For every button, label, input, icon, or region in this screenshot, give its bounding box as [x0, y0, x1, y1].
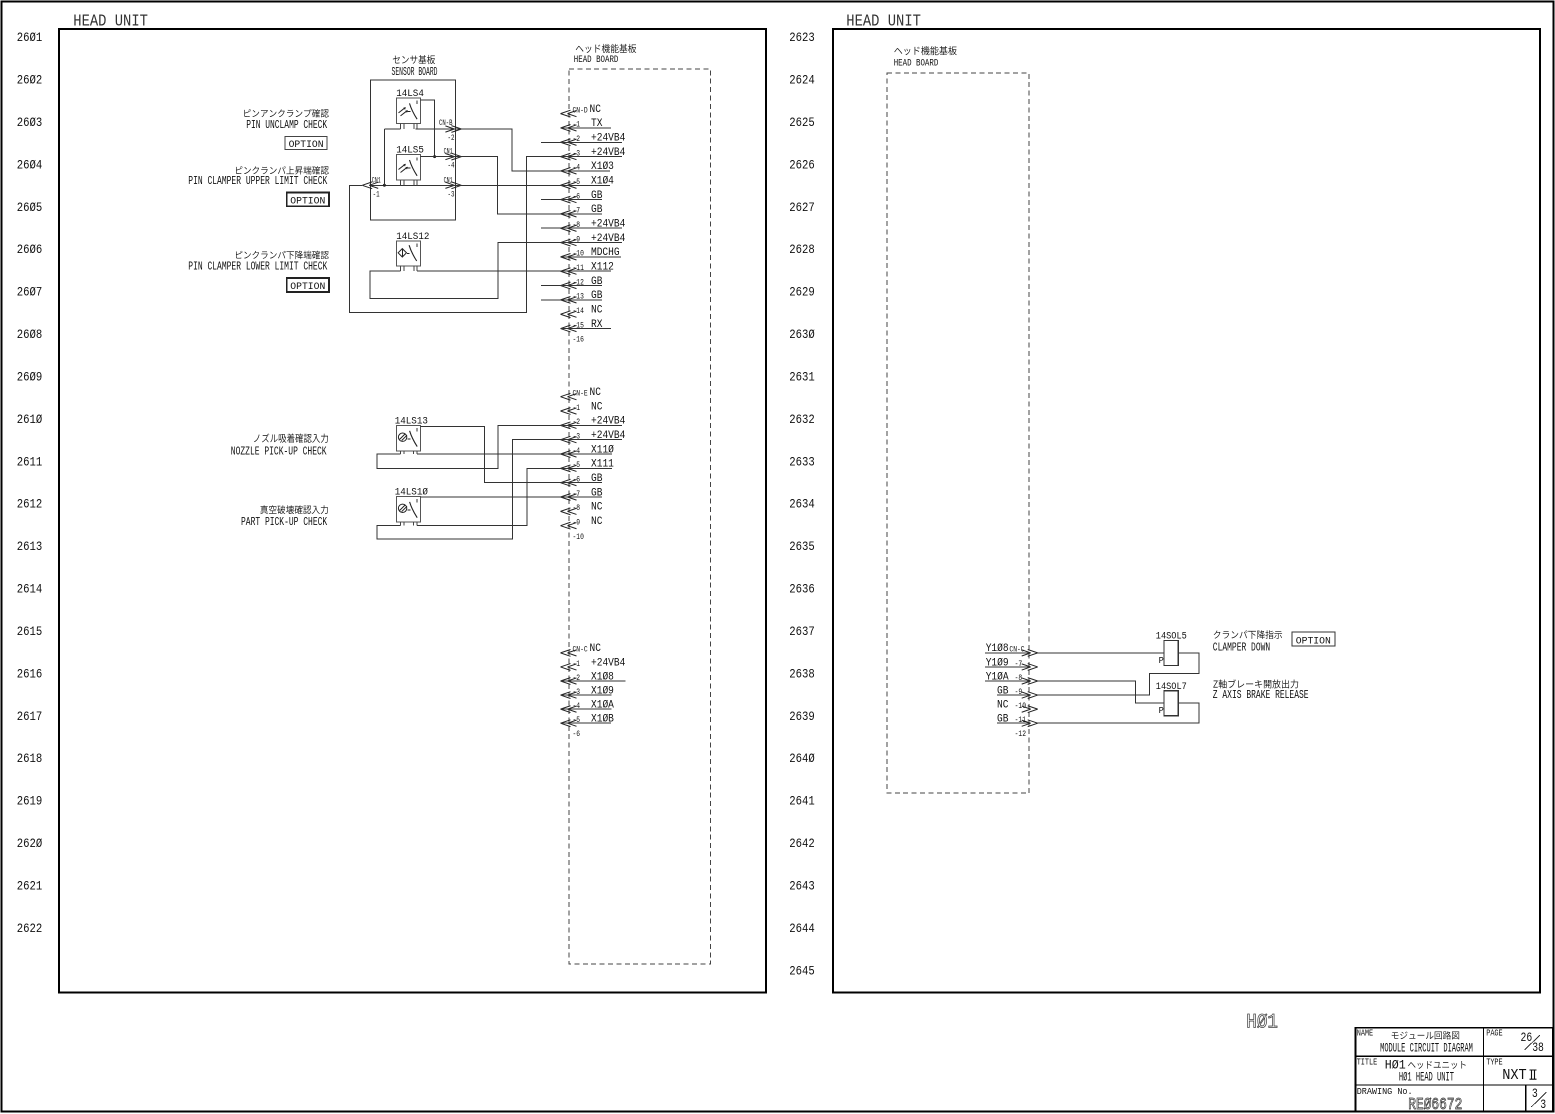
svg-text:OPTION: OPTION	[290, 195, 325, 207]
label ピンアンクランプ確認	[244, 109, 329, 118]
head board label (Japanese) ヘッド機能基板 - right	[894, 46, 956, 55]
sensor board label (Japanese) センサ基板	[393, 55, 435, 64]
svg-text:RX: RX	[591, 319, 603, 331]
svg-text:2627: 2627	[789, 200, 815, 215]
svg-text:P: P	[1159, 705, 1164, 716]
svg-text:2617: 2617	[17, 709, 43, 724]
connector CN-C (right sheet) pin -7 (Y109)	[985, 657, 1038, 670]
label ノズル吸着確認入力	[254, 433, 328, 442]
svg-text:2613: 2613	[17, 539, 43, 554]
wire net GB: LS10 top to CN-E-7	[421, 496, 561, 498]
title block outline	[1356, 1028, 1554, 1112]
svg-text:264Ø: 264Ø	[789, 751, 815, 766]
svg-text:NC: NC	[590, 387, 602, 399]
svg-text:3: 3	[1532, 1087, 1538, 1101]
svg-text:-1: -1	[573, 659, 581, 669]
svg-text:2612: 2612	[17, 497, 43, 512]
svg-text:CN-E: CN-E	[573, 389, 588, 399]
connector CN-E pin -6 (GB)	[561, 473, 603, 486]
label クランパ下降指示	[1214, 630, 1282, 639]
connector CN-E pin -4 (X110)	[561, 444, 615, 457]
connector CN-D pin -12 (GB)	[561, 276, 603, 289]
svg-text:Z AXIS BRAKE RELEASE: Z AXIS BRAKE RELEASE	[1213, 689, 1309, 702]
svg-text:-1: -1	[573, 403, 581, 413]
wire net CN1-4 to CN-D-7 (GB)	[421, 157, 561, 214]
svg-text:26Ø3: 26Ø3	[17, 115, 43, 130]
svg-text:HEAD UNIT: HEAD UNIT	[846, 11, 921, 30]
svg-text:2631: 2631	[789, 369, 815, 384]
svg-text:PIN CLAMPER UPPER LIMIT CHECK: PIN CLAMPER UPPER LIMIT CHECK	[188, 175, 327, 188]
junction dot LS4 output on CN1-4 net	[433, 155, 436, 158]
svg-text:26Ø8: 26Ø8	[17, 327, 43, 342]
svg-text:2623: 2623	[789, 30, 815, 45]
svg-text:2611: 2611	[17, 454, 43, 469]
OPTION box right	[1292, 632, 1335, 646]
svg-text:+24VB4: +24VB4	[591, 657, 625, 669]
svg-text:2638: 2638	[789, 666, 815, 681]
svg-text:2633: 2633	[789, 454, 815, 469]
label Z軸ブレーキ開放出力	[1213, 679, 1298, 688]
wire LS5 right pin to CN1-3 net	[413, 180, 415, 185]
svg-text:2621: 2621	[17, 879, 43, 894]
sensor 14LS4 (pin unclamp photo sensor)	[396, 98, 420, 123]
connector CN-E pin -7 (GB)	[561, 487, 603, 500]
svg-text:NAME: NAME	[1357, 1027, 1374, 1038]
sensor 14LS13 (nozzle pick-up vacuum sensor)	[396, 426, 420, 451]
svg-text:2645: 2645	[789, 963, 815, 978]
svg-text:2642: 2642	[789, 836, 815, 851]
connector CN-D pin -7 (GB)	[561, 204, 603, 217]
label ピンクランパ上昇端確認	[236, 166, 329, 175]
svg-text:2644: 2644	[789, 921, 815, 936]
sensor 14LS5 (pin clamper upper limit photo sensor)	[396, 155, 420, 180]
OPTION box 2	[287, 193, 329, 207]
connector CN-D pin -3 (+24VB4)	[561, 147, 626, 160]
connector CN-E pin -8 (NC)	[561, 502, 603, 515]
connector CN-C pin -2 (X108)	[561, 671, 626, 684]
connector CN-D pin -11 (X112)	[561, 262, 615, 275]
connector CN-D pin -13 (GB)	[561, 290, 603, 303]
svg-text:-1: -1	[373, 189, 380, 199]
svg-text:HEAD BOARD: HEAD BOARD	[574, 54, 619, 66]
svg-text:-4: -4	[448, 161, 455, 171]
svg-text:2639: 2639	[789, 709, 815, 724]
connector CN-C (right sheet) pin -9 (GB)	[997, 685, 1038, 698]
svg-text:14SOL7: 14SOL7	[1156, 682, 1187, 693]
svg-text:261Ø: 261Ø	[17, 412, 43, 427]
wire net GB: LS13 top to CN-E-6	[421, 426, 561, 482]
connector CN-D pin -2 (+24VB4)	[561, 133, 626, 146]
svg-text:CN-B: CN-B	[439, 119, 453, 128]
svg-text:MDCHG: MDCHG	[591, 247, 620, 259]
svg-text:NC: NC	[997, 699, 1009, 711]
svg-text:MODULE CIRCUIT DIAGRAM: MODULE CIRCUIT DIAGRAM	[1380, 1041, 1473, 1055]
connector CN-D row NC (top)	[561, 104, 602, 117]
svg-text:-14: -14	[573, 306, 584, 316]
svg-text:OPTION: OPTION	[1296, 635, 1331, 647]
title block title H01ヘッドユニット	[1385, 1057, 1466, 1072]
wire stub GB CN-D-6	[541, 199, 561, 201]
svg-text:+24VB4: +24VB4	[591, 416, 625, 428]
svg-text:TITLE: TITLE	[1357, 1056, 1378, 1067]
wire stub +24VB4 CN-D-8	[541, 227, 561, 229]
title block type NXT II	[1502, 1068, 1536, 1084]
svg-text:26Ø2: 26Ø2	[17, 73, 43, 88]
title block page number 26/38	[1521, 1031, 1544, 1055]
title block dividers	[1356, 1028, 1554, 1112]
sensor 14LS12 (pin clamper lower limit pressure sensor)	[396, 241, 420, 266]
connector CN1 pin 1 (sensor board left edge)	[362, 176, 381, 199]
svg-text:2624: 2624	[789, 73, 815, 88]
svg-text:CN-C: CN-C	[573, 645, 588, 655]
svg-text:TX: TX	[591, 118, 603, 130]
svg-text:PIN CLAMPER LOWER LIMIT CHECK: PIN CLAMPER LOWER LIMIT CHECK	[188, 261, 327, 274]
svg-text:-8: -8	[573, 503, 581, 513]
wire net +24VB4 supply: CN-D-3 to CN1-1	[349, 157, 560, 313]
svg-text:NC: NC	[590, 104, 602, 116]
svg-text:26Ø6: 26Ø6	[17, 242, 43, 257]
wire 14SOL7 - return to CN-C-11 (GB)	[1038, 703, 1199, 723]
svg-text:-6: -6	[573, 729, 581, 739]
wire 14SOL5 - return to CN-C-9 (GB)	[1038, 653, 1199, 695]
svg-text:P: P	[1159, 655, 1164, 666]
svg-text:26Ø5: 26Ø5	[17, 200, 43, 215]
connector CN-C row NC (top, left sheet)	[561, 643, 602, 656]
svg-text:2616: 2616	[17, 666, 43, 681]
sensor 14LS10 (part pick-up vacuum sensor)	[396, 497, 420, 522]
svg-text:PIN UNCLAMP CHECK: PIN UNCLAMP CHECK	[246, 119, 327, 132]
connector CN-E pin -1 (NC)	[561, 401, 603, 414]
svg-text:OPTION: OPTION	[289, 139, 324, 151]
label ピンクランパ下降端確認	[236, 251, 329, 260]
connector CN-E pin -3 (+24VB4)	[561, 430, 626, 443]
svg-text:PAGE: PAGE	[1486, 1027, 1503, 1038]
svg-text:X11Ø: X11Ø	[591, 444, 614, 456]
svg-text:2628: 2628	[789, 242, 815, 257]
svg-text:NOZZLE PICK-UP CHECK: NOZZLE PICK-UP CHECK	[231, 445, 327, 458]
svg-text:TYPE: TYPE	[1486, 1056, 1503, 1067]
wire LS5 left pin to CN1-1 net	[400, 180, 402, 185]
svg-text:2632: 2632	[789, 412, 815, 427]
svg-text:26Ø9: 26Ø9	[17, 369, 43, 384]
svg-text:26: 26	[1521, 1031, 1533, 1045]
wire CN-C Y10A to 14SOL7 +	[1038, 681, 1165, 703]
svg-text:2643: 2643	[789, 879, 815, 894]
sensor board outline box	[371, 80, 456, 220]
wire stub +24VB4 CN-D-2	[541, 141, 561, 143]
svg-text:2637: 2637	[789, 624, 815, 639]
svg-text:263Ø: 263Ø	[789, 327, 815, 342]
right sheet frame	[833, 29, 1540, 993]
left sheet frame	[59, 29, 766, 993]
svg-text:HEAD BOARD: HEAD BOARD	[894, 58, 939, 70]
wire stub GB CN-D-13	[541, 299, 561, 301]
connector CN1 pin 4 (sensor board right edge)	[444, 148, 462, 171]
title block sheet 3/3	[1531, 1087, 1546, 1112]
connector CN-C (right sheet) pin -11 (GB)	[997, 714, 1038, 727]
svg-text:CLAMPER DOWN: CLAMPER DOWN	[1213, 641, 1270, 654]
connector CN-E pin -2 (+24VB4)	[561, 416, 626, 429]
title block name モジュール回路図	[1392, 1031, 1459, 1039]
svg-text:26Ø4: 26Ø4	[17, 157, 43, 172]
wire net +24VB4: LS13 left pin to CN-E-2	[400, 451, 402, 454]
svg-text:OPTION: OPTION	[290, 281, 325, 293]
connector CN-D pin -15 (RX)	[561, 319, 612, 332]
wire net X104 / CN1 row: CN1-1 through LS5 pins and CN1-3 to CN-D-5	[371, 184, 561, 186]
svg-text:GB: GB	[591, 473, 603, 485]
connector CN-C pin -1 (+24VB4)	[561, 657, 626, 670]
left margin grid line numbers 2601-2622	[17, 30, 43, 936]
svg-text:2622: 2622	[17, 921, 43, 936]
connector CN-E row NC (top)	[561, 387, 602, 400]
connector CN-E pin -9 (NC)	[561, 516, 603, 529]
wire LS4 right pin to CN-B-2	[413, 123, 415, 129]
junction dot LS4 branch on CN1-1 net	[383, 184, 386, 187]
head board label (Japanese) ヘッド機能基板 - left	[576, 44, 636, 53]
svg-text:-3: -3	[448, 189, 455, 199]
connector CN-C pin -4 (X10A)	[561, 699, 615, 712]
connector CN-E pin -5 (X111)	[561, 459, 615, 472]
connector CN1 pin 3 (sensor board right edge)	[444, 176, 462, 199]
svg-text:HEAD UNIT: HEAD UNIT	[73, 11, 148, 30]
connector CN-C (right sheet) pin -10 (NC)	[997, 699, 1038, 712]
svg-text:-16: -16	[573, 335, 584, 345]
connector CN-D pin -10 (MDCHG)	[561, 247, 622, 260]
svg-text:2614: 2614	[17, 582, 43, 597]
svg-text:-9: -9	[573, 517, 581, 527]
solenoid 14SOL7 (Z axis brake release)	[1159, 691, 1179, 717]
wire net X103: CN-B-2 to CN-D-4	[416, 129, 561, 171]
svg-text:38: 38	[1532, 1041, 1544, 1055]
connector CN-D pin -6 (GB)	[561, 190, 603, 203]
svg-text:NC: NC	[591, 502, 603, 514]
right margin grid line numbers 2623-2645	[789, 30, 815, 978]
svg-text:2641: 2641	[789, 794, 815, 809]
wire net X112: LS12 right pin to CN-D-11	[413, 265, 415, 271]
connector CN-D pin -8 (+24VB4)	[561, 219, 626, 232]
connector CN-B pin 2 (sensor board right edge)	[439, 119, 461, 143]
solenoid 14SOL5 (clamper down)	[1159, 640, 1179, 666]
svg-text:HØ1 HEAD UNIT: HØ1 HEAD UNIT	[1399, 1070, 1454, 1084]
connector CN-D pin -5 (X104)	[561, 176, 615, 189]
OPTION box 3	[287, 278, 329, 292]
svg-text:NC: NC	[591, 401, 603, 413]
svg-text:26Ø7: 26Ø7	[17, 285, 43, 300]
svg-text:262Ø: 262Ø	[17, 836, 43, 851]
wire net X111: LS10 right pin to CN-E-5	[413, 522, 415, 526]
svg-text:26Ø1: 26Ø1	[17, 30, 43, 45]
connector CN-D pin -1 (TX)	[561, 118, 612, 131]
svg-text:HØ1: HØ1	[1246, 1012, 1278, 1035]
svg-text:2626: 2626	[789, 157, 815, 172]
svg-text:2615: 2615	[17, 624, 43, 639]
svg-text:2636: 2636	[789, 582, 815, 597]
svg-text:2629: 2629	[789, 285, 815, 300]
connector CN-D pin -14 (NC)	[561, 305, 603, 318]
svg-text:-2: -2	[448, 133, 455, 143]
head board dashed outline - left	[569, 69, 711, 964]
wire net +24VB4: LS12 left pin loop to CN-D-9	[400, 265, 402, 271]
wire LS4 left pin to CN1-1 net	[400, 123, 402, 129]
svg-text:-10: -10	[573, 532, 584, 542]
svg-text:2635: 2635	[789, 539, 815, 554]
svg-text:3: 3	[1540, 1098, 1546, 1112]
head board dashed outline - right	[887, 73, 1029, 793]
svg-text:2625: 2625	[789, 115, 815, 130]
connector CN-D pin -4 (X103)	[561, 161, 615, 174]
svg-text:2618: 2618	[17, 751, 43, 766]
svg-text:-12: -12	[1015, 729, 1026, 739]
wire net X110: LS13 right pin to CN-E-4	[413, 451, 415, 454]
svg-text:CN-D: CN-D	[573, 105, 588, 115]
svg-text:2619: 2619	[17, 794, 43, 809]
svg-text:NC: NC	[591, 516, 603, 528]
svg-text:CN1: CN1	[372, 176, 381, 185]
svg-text:-10: -10	[1015, 701, 1026, 711]
svg-text:NC: NC	[590, 643, 602, 655]
svg-text:NXT: NXT	[1502, 1068, 1527, 1084]
svg-text:SENSOR BOARD: SENSOR BOARD	[392, 65, 438, 79]
connector CN-C pin -5 (X10B)	[561, 714, 615, 727]
wire net +24VB4: LS10 left pin to CN-E-3	[400, 522, 402, 526]
svg-text:NC: NC	[591, 305, 603, 317]
svg-text:DRAWING No.: DRAWING No.	[1357, 1086, 1413, 1097]
connector CN-C pin -3 (X109)	[561, 685, 615, 698]
connector CN-C (right sheet) pin -8 (Y10A)	[985, 671, 1038, 684]
connector CN-D pin -9 (+24VB4)	[561, 233, 626, 246]
label 真空破壊確認入力	[260, 505, 328, 514]
connector CN-C (right sheet) row Y108 pin header	[985, 643, 1038, 656]
svg-text:CN1: CN1	[444, 176, 453, 185]
svg-text:REØ6672: REØ6672	[1408, 1095, 1462, 1114]
wire stub GB CN-D-12	[541, 285, 561, 287]
svg-text:2634: 2634	[789, 497, 815, 512]
wire LS4 top output to CN1-4 net	[421, 100, 435, 157]
wire CN-C Y108 to 14SOL5 +	[1038, 652, 1165, 654]
svg-text:PART PICK-UP CHECK: PART PICK-UP CHECK	[241, 516, 327, 529]
OPTION box 1	[285, 136, 327, 149]
svg-text:CN1: CN1	[444, 148, 453, 157]
